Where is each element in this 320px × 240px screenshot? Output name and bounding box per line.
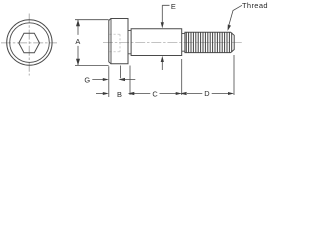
svg-text:E: E — [171, 2, 176, 11]
arrow Thread leader — [228, 25, 231, 31]
dim E leader line — [162, 5, 169, 70]
dim G arrow lines — [92, 79, 135, 81]
hidden socket depth lines (side view) — [110, 34, 121, 52]
leader Thread line — [228, 5, 242, 27]
centerline vertical (end view) — [28, 14, 30, 76]
svg-text:Thread: Thread — [242, 1, 268, 10]
dim A extension lines — [75, 20, 109, 66]
arrow D right — [228, 92, 234, 95]
arrow D left — [180, 92, 187, 95]
dim D dimension line — [187, 93, 229, 95]
arrow G left — [103, 78, 109, 81]
svg-text:C: C — [152, 90, 158, 99]
dim B arrow line — [96, 93, 104, 95]
arrow B right / C left — [128, 92, 135, 95]
svg-text:D: D — [204, 89, 209, 98]
head outer circle (end view) — [7, 20, 52, 65]
dim G extension line right — [120, 66, 122, 79]
thread undercut — [182, 34, 185, 52]
centerline horizontal (side view) — [103, 42, 243, 44]
dim G extension line left — [108, 66, 110, 97]
arrow C right — [176, 92, 182, 95]
arrow A bottom — [76, 59, 80, 66]
thread crest lines — [186, 32, 231, 52]
head chamfer circle (end view) — [10, 23, 50, 63]
hex socket (end view) — [19, 33, 40, 53]
centerline horizontal (end view) — [1, 42, 57, 44]
screw head (side view) — [109, 19, 128, 64]
svg-text:G: G — [84, 75, 90, 84]
shoulder — [131, 29, 182, 56]
arrow A top — [76, 20, 80, 27]
dim A dimension line — [77, 20, 79, 66]
dim D ext line — [233, 55, 235, 95]
dim C dimension line — [134, 93, 177, 95]
neck under head — [128, 31, 131, 54]
dim B/C ext line — [129, 66, 131, 96]
arrow B left — [103, 92, 109, 95]
dim C/D ext line — [181, 59, 183, 95]
thread body — [185, 32, 234, 52]
arrow G right — [118, 78, 125, 81]
arrow E top (down) — [161, 22, 164, 28]
head chamfer line — [110, 19, 112, 64]
svg-text:A: A — [75, 37, 80, 46]
svg-text:B: B — [117, 90, 122, 99]
arrow E bottom (up) — [161, 56, 164, 62]
